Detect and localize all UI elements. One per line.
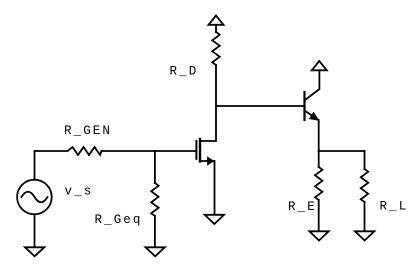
MOSFET M1 source wire <box>200 161 215 215</box>
ground under MOSFET source <box>205 215 224 224</box>
transistor Q1 emitter arrow <box>310 113 318 120</box>
MOSFET M1 source arrow <box>208 157 214 164</box>
wire V_S top to R_GEN <box>35 151 68 179</box>
ground under R_Geq <box>146 247 165 256</box>
power symbol VDD above R_D <box>209 16 224 25</box>
wire node down to R_Geq <box>154 151 156 183</box>
svg-text:v_s: v_s <box>65 185 94 199</box>
transistor Q1 emitter <box>305 111 318 120</box>
wire R_L branch down <box>364 151 366 169</box>
svg-text:R_E: R_E <box>288 200 317 214</box>
wire emitter down to junction <box>318 120 320 151</box>
wire emitter junction to R_L branch <box>319 150 365 152</box>
wire R_Geq to ground <box>154 216 156 247</box>
wire R_L to ground <box>364 202 366 231</box>
power symbol VCC above Q1 <box>312 61 327 70</box>
wire junction down to R_E <box>318 151 320 167</box>
svg-text:R_Geq: R_Geq <box>95 213 143 227</box>
svg-text:R_GEN: R_GEN <box>64 124 112 138</box>
svg-text:R_L: R_L <box>380 200 409 214</box>
resistor R_Geq <box>151 183 158 216</box>
MOSFET M1 gate bar <box>195 141 197 159</box>
resistor R_D <box>212 32 219 65</box>
resistor R_L <box>361 169 368 202</box>
transistor Q1 collector <box>305 71 320 101</box>
wire drain node to BJT base <box>216 105 305 107</box>
voltage source V_S <box>17 180 52 215</box>
svg-text:R_D: R_D <box>170 65 199 79</box>
resistor R_GEN <box>68 147 102 155</box>
transistor Q1 base bar <box>303 92 305 120</box>
resistor R_E <box>315 167 322 200</box>
sine wave of V_S <box>22 192 48 203</box>
wire VDD to R_D <box>215 25 217 32</box>
ground under R_L <box>355 231 374 240</box>
ground under V_S <box>25 247 44 256</box>
ground under R_E <box>309 231 328 240</box>
wire V_S bottom to ground <box>34 215 36 247</box>
MOSFET M1 channel bar <box>199 139 201 162</box>
wire R_GEN to MOSFET gate (through node) <box>102 150 197 152</box>
wire R_E to ground <box>318 200 320 231</box>
wire R_D to MOSFET drain <box>200 65 216 141</box>
